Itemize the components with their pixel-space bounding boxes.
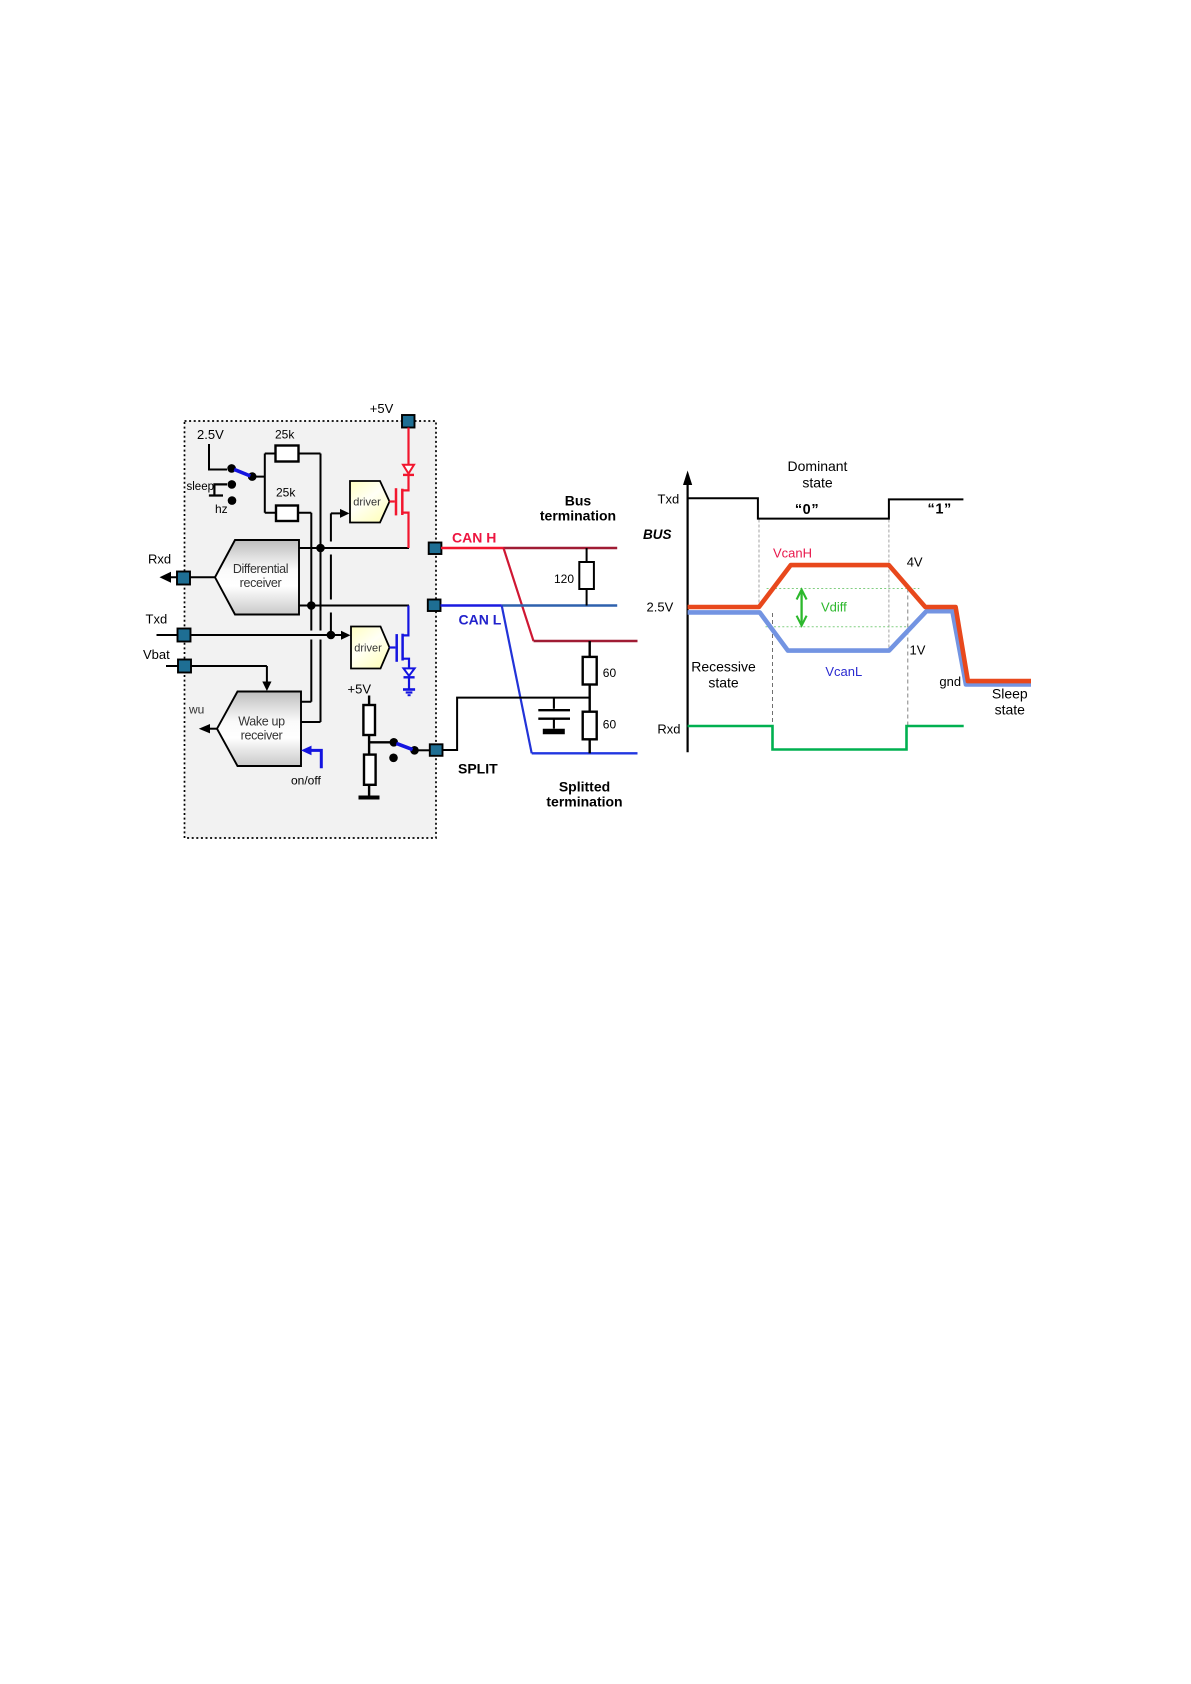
junction dot on CAN H line	[316, 544, 325, 553]
svg-text:receiver: receiver	[241, 728, 283, 742]
svg-text:Vbat: Vbat	[143, 647, 170, 662]
svg-text:4V: 4V	[907, 555, 923, 570]
svg-text:Dominant: Dominant	[788, 458, 848, 474]
wire splitted CAN L bus line (bright blue)	[532, 752, 638, 754]
resistor divider upper	[363, 705, 375, 735]
diode D1 (red)	[403, 465, 414, 474]
svg-text:Differential: Differential	[233, 562, 288, 576]
switch blade (blue)	[234, 469, 250, 476]
svg-text:Sleep: Sleep	[992, 686, 1028, 702]
Vdiff arrow (green, double headed)	[800, 591, 802, 625]
wire switch pole to resistor pair	[256, 454, 276, 513]
wire +5V to diode D1	[407, 428, 409, 465]
node CAN H port square	[429, 543, 442, 555]
svg-text:Wake up: Wake up	[238, 715, 285, 729]
wire divider bottom to ground	[368, 785, 370, 796]
ground (blue)	[403, 690, 415, 696]
svg-text:“1”: “1”	[928, 502, 952, 518]
capacitor C1 splitted termination	[553, 698, 555, 709]
svg-text:25k: 25k	[275, 428, 295, 442]
svg-text:2.5V: 2.5V	[647, 600, 674, 615]
wire +5V to divider	[368, 696, 370, 706]
ground (divider)	[359, 796, 380, 800]
waveform VcanH trace (orange red)	[688, 565, 1031, 681]
wire receiver output to Rxd with arrow	[166, 576, 215, 578]
svg-text:Splitted: Splitted	[559, 779, 610, 795]
wire splitted CAN H bus line (dark red)	[534, 640, 638, 642]
on/off control arrow (blue)	[307, 750, 321, 768]
transistor Q2 gate bar	[395, 634, 398, 662]
wire divider mid	[369, 735, 390, 755]
op-amp U4 driver (lower, CAN L)	[351, 627, 390, 669]
transistor Q1 channel bar	[401, 489, 404, 515]
Vdiff dashed level lower (green)	[766, 626, 917, 628]
wire from 2.5V to switch	[209, 444, 227, 470]
node +5V port square (top border)	[402, 415, 415, 428]
node split switch lower contact	[389, 754, 398, 763]
svg-text:+5V: +5V	[370, 401, 394, 416]
wire CAN H input to receiver	[299, 547, 409, 549]
wire CAN H bus stub (bright red)	[441, 547, 504, 549]
svg-text:CAN L: CAN L	[459, 612, 502, 628]
svg-text:Rxd: Rxd	[657, 722, 680, 737]
resistor 25k upper	[276, 446, 299, 462]
svg-text:hz: hz	[215, 502, 228, 516]
wire switch pole to SPLIT port	[418, 749, 430, 751]
wire CAN L bus stub (bright blue)	[441, 604, 502, 606]
guide dash-dot vertical (Txd rise)	[888, 520, 890, 651]
guide dash-dot vertical (Rxd rise)	[907, 589, 909, 727]
wire diode to ground	[408, 677, 410, 689]
transistor Q2 drain lead to CAN L	[403, 606, 409, 636]
svg-text:Vdiff: Vdiff	[821, 600, 847, 615]
node Txd junction dot	[327, 631, 336, 640]
node Txd port square	[178, 629, 191, 642]
transistor Q1 PMOS (red) gate lead	[390, 500, 395, 502]
wire CAN L input to receiver	[299, 605, 409, 607]
svg-text:gnd: gnd	[939, 674, 961, 689]
svg-text:“0”: “0”	[795, 502, 819, 518]
waveform Rxd trace (green)	[688, 726, 964, 750]
svg-text:Recessive: Recessive	[691, 659, 756, 675]
wire 25k lower to CANL rail (vertical x=311.3)	[298, 513, 311, 702]
transistor Q2 source lead	[403, 659, 409, 669]
svg-text:25k: 25k	[276, 486, 296, 500]
guide dash-dot vertical (Rxd fall)	[772, 613, 774, 749]
resistor 120 ohm bus termination	[586, 548, 588, 562]
svg-text:1V: 1V	[910, 643, 926, 658]
ground (capacitor)	[543, 729, 565, 735]
svg-text:sleep: sleep	[187, 481, 215, 493]
wire wake-up output arrow wu	[207, 728, 217, 730]
wire CAN H bus line (dark red)	[504, 547, 618, 549]
transistor Q2 NMOS (blue) gate lead	[390, 646, 396, 648]
node split switch contact (mid divider)	[390, 738, 399, 747]
transistor Q1 source lead to CAN H	[402, 513, 408, 548]
svg-text:wu: wu	[188, 703, 204, 717]
svg-text:CAN H: CAN H	[452, 530, 496, 546]
wire Txd junction up to upper driver with arrow	[331, 513, 341, 632]
split switch blade (blue)	[396, 743, 412, 749]
node switch contact 2.5V	[227, 464, 236, 473]
diode D2 (blue)	[404, 668, 415, 675]
op-amp U1 differential receiver	[215, 540, 299, 615]
svg-text:state: state	[995, 702, 1026, 718]
axis vertical with arrow	[686, 483, 688, 752]
svg-text:+5V: +5V	[348, 682, 372, 697]
op-amp U2 wake up receiver	[217, 692, 301, 767]
arrowhead into lower driver	[341, 631, 351, 640]
svg-text:120: 120	[554, 572, 574, 586]
svg-text:SPLIT: SPLIT	[458, 761, 498, 777]
guide dash-dot vertical (Txd fall)	[758, 520, 760, 607]
Vdiff dashed level upper (green)	[767, 588, 920, 590]
wire Txd input line	[157, 634, 343, 636]
svg-text:60: 60	[603, 718, 617, 732]
transceiver IC dashed boundary box	[185, 421, 437, 838]
svg-text:termination: termination	[540, 508, 616, 524]
svg-text:driver: driver	[353, 497, 381, 509]
svg-text:Txd: Txd	[146, 611, 168, 626]
wire CAN L branch diagonal to splitted bus	[502, 606, 532, 754]
transistor Q2 channel bar	[401, 634, 404, 661]
node CAN L port square	[428, 600, 441, 612]
svg-text:state: state	[708, 675, 739, 691]
waveform Txd trace	[688, 498, 964, 518]
svg-text:on/off: on/off	[291, 774, 321, 788]
svg-text:60: 60	[603, 666, 617, 680]
svg-text:termination: termination	[546, 794, 622, 810]
svg-text:state: state	[802, 475, 833, 491]
svg-text:VcanL: VcanL	[825, 664, 862, 679]
svg-text:Txd: Txd	[658, 492, 680, 507]
waveform VcanL trace (light blue)	[688, 611, 1031, 684]
svg-text:VcanH: VcanH	[773, 546, 812, 561]
node SPLIT port square	[430, 744, 443, 756]
svg-text:Rxd: Rxd	[148, 552, 171, 567]
transistor Q1 gate bar	[395, 488, 398, 515]
svg-text:receiver: receiver	[240, 576, 282, 590]
resistor 60 ohm (upper)	[589, 641, 591, 657]
sleep contact stub	[209, 484, 227, 495]
node switch pole	[248, 472, 257, 481]
resistor divider lower	[364, 755, 376, 785]
svg-text:Bus: Bus	[565, 493, 592, 509]
wire Vbat to wake-up receiver with down arrow	[166, 666, 267, 684]
node switch contact hz	[228, 496, 237, 505]
wire CAN L bus line (dark blue)	[502, 604, 618, 606]
node switch contact sleep	[228, 480, 237, 489]
svg-text:2.5V: 2.5V	[197, 427, 224, 442]
wire CAN H branch diagonal to splitted bus	[504, 548, 534, 641]
transistor Q1 drain lead	[402, 476, 408, 490]
svg-text:driver: driver	[354, 643, 382, 655]
op-amp U3 driver (upper, CAN H)	[350, 481, 390, 523]
svg-text:BUS: BUS	[643, 527, 672, 542]
wire 25k upper to CANH rail (vertical x=320.5)	[299, 454, 321, 723]
node split switch pole	[410, 746, 419, 755]
resistor 60 ohm (lower)	[583, 712, 597, 740]
node Rxd port square	[177, 572, 190, 585]
junction dot on CAN L line	[307, 601, 316, 610]
resistor 25k lower	[276, 506, 298, 522]
wire SPLIT to splitted termination centre tap	[443, 698, 590, 750]
node Vbat port square	[178, 660, 191, 673]
